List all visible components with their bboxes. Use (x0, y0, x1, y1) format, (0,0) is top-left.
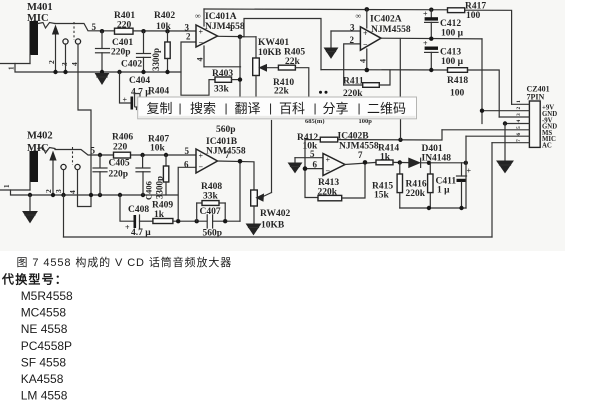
hidden label dots (319, 91, 328, 94)
op-amp IC401B (196, 149, 218, 173)
capacitor C407 560p (200, 207, 241, 239)
node dot R407 (164, 153, 168, 157)
rail dot C412 (429, 8, 433, 12)
svg-text:220: 220 (113, 143, 128, 153)
IC402A labels (356, 12, 411, 36)
ground symbol connector (497, 124, 513, 173)
node dot pin4 rail (365, 68, 370, 73)
feedback vertical x240 lower (239, 161, 241, 221)
svg-text:3300p: 3300p (151, 48, 161, 71)
svg-text:KW401: KW401 (258, 38, 289, 48)
resistor R414 1k (376, 144, 409, 165)
svg-text:M5R4558: M5R4558 (21, 289, 73, 303)
pin 2 digit and wire IC402A (344, 35, 361, 85)
capacitor C412 100u (423, 10, 464, 39)
svg-text:NJM4558: NJM4558 (371, 25, 411, 35)
M401 MIC jack labels (27, 2, 53, 24)
node dot M401 arrow rail (53, 70, 57, 74)
capacitor C411 1u electrolytic (436, 163, 472, 208)
svg-text:分享: 分享 (323, 101, 349, 116)
node dot C406 (140, 153, 144, 157)
svg-text:R402: R402 (154, 11, 175, 21)
svg-text:+: + (363, 29, 368, 38)
svg-text:AC: AC (542, 142, 552, 149)
resistor R401 220 (114, 11, 135, 34)
svg-text:2: 2 (47, 60, 56, 64)
M402 switch dashed link (72, 147, 74, 165)
ground symbol RW402 (247, 224, 261, 235)
resistor R407 10k vertical (148, 135, 169, 196)
R408 C407 parallel network (197, 203, 226, 221)
resistor R408 33k (201, 182, 222, 205)
IC401B labels (206, 137, 246, 157)
svg-text:4: 4 (359, 59, 368, 63)
selection toolbar popup (135, 94, 417, 119)
output feedback vertical (399, 39, 401, 98)
svg-text:|: | (314, 101, 317, 115)
capacitor C402 3300p (121, 31, 161, 72)
op-amp IC402B (323, 154, 345, 176)
MIC net vertical (465, 136, 467, 208)
svg-text:5: 5 (92, 22, 97, 32)
bottom wire dots (427, 206, 464, 210)
svg-text:NE 4558: NE 4558 (21, 322, 68, 336)
svg-text:R408: R408 (201, 182, 222, 192)
svg-text:M402: M402 (27, 131, 53, 142)
pin 1 digit and output wire IC401A (218, 23, 245, 37)
wire output to feedback top (244, 19, 321, 70)
scan background (0, 0, 565, 251)
M401 tip contact arrow (53, 26, 59, 72)
svg-text:C413: C413 (440, 48, 461, 58)
capacitor C408 4.7u electrolytic (125, 205, 153, 238)
M402 tip contact arrow (50, 152, 56, 195)
IC401A pin8 wire to rail (203, 9, 205, 26)
node dot R415 (398, 160, 402, 164)
svg-text:10KB: 10KB (261, 221, 285, 231)
svg-text:220p: 220p (109, 170, 129, 180)
node dot diode out (427, 161, 431, 165)
diode D401 IN4148 (409, 144, 466, 167)
resistor R413 220k (318, 162, 366, 200)
svg-text:5: 5 (91, 146, 96, 156)
svg-text:6: 6 (516, 133, 522, 136)
svg-text:15k: 15k (374, 191, 390, 201)
svg-text:2: 2 (516, 107, 522, 110)
svg-text:3: 3 (54, 189, 63, 193)
M402 pin digits 2 3 4 (44, 189, 77, 194)
IC402A output wire (381, 37, 482, 40)
svg-text:+: + (199, 152, 204, 161)
svg-text:10k: 10k (156, 22, 172, 32)
svg-text:220k: 220k (406, 189, 426, 199)
svg-text:+: + (423, 10, 428, 19)
svg-text:C402: C402 (121, 60, 142, 70)
M402 jack body (30, 151, 39, 182)
svg-text:MC4558: MC4558 (21, 306, 67, 320)
rail dot IC402A (365, 7, 370, 12)
node dot R403 (238, 77, 242, 81)
svg-text:4: 4 (68, 190, 77, 194)
svg-text:7: 7 (516, 139, 522, 142)
rail2 junction dots (51, 193, 145, 197)
pin 6 digit and wire IC402B (305, 159, 323, 169)
op-amp IC401A (196, 25, 218, 47)
svg-text:4: 4 (516, 120, 522, 123)
node dot R401 input (100, 29, 104, 33)
svg-text:+: + (467, 167, 472, 176)
node dot C404 branch (117, 70, 121, 74)
IC402B labels (338, 132, 379, 152)
IC402A pin4 wire (359, 49, 368, 70)
svg-text:R401: R401 (114, 11, 135, 21)
svg-text:−: − (326, 167, 331, 176)
svg-text:7: 7 (358, 150, 363, 160)
wire C408 branch (120, 195, 134, 221)
ground rail channel 1 (0, 55, 181, 73)
vertical from R412 node up (400, 120, 402, 140)
node dot pin6 (303, 166, 308, 171)
resistor R415 15k vertical (372, 163, 403, 209)
op-amp IC402A (360, 27, 381, 50)
resistor R417 100 (448, 2, 512, 105)
CZ401 pin numbers (516, 100, 522, 142)
M401 pin3 wire to ground rail (65, 44, 67, 72)
ground symbol C401 (96, 70, 109, 84)
hidden label fragments under toolbar (305, 118, 372, 125)
svg-text:∞: ∞ (356, 12, 362, 21)
pin 3 digit and wire IC402A (331, 23, 360, 33)
ground symbol IC402A pin3 (325, 31, 338, 58)
node dot network right (223, 219, 227, 223)
svg-text:D401: D401 (422, 144, 443, 154)
svg-text:6: 6 (313, 159, 318, 169)
IC401A pin4 wire (196, 46, 241, 67)
wire jack M402 to R406 node (55, 150, 196, 156)
svg-text:|: | (225, 101, 228, 115)
ground symbol rail2 (23, 193, 37, 223)
svg-text:−: − (199, 163, 204, 172)
svg-text:4: 4 (196, 58, 205, 62)
detector bottom wire (400, 207, 466, 209)
svg-text:SF 4558: SF 4558 (21, 355, 67, 369)
resistor R418 100 (447, 68, 499, 117)
svg-text:100 μ: 100 μ (441, 57, 464, 67)
svg-text:二维码: 二维码 (367, 101, 406, 116)
M401 pin digits 2 3 4 (47, 60, 79, 66)
svg-text:|: | (269, 101, 272, 115)
pin 7 digit and output wire IC402B (345, 150, 376, 165)
top supply rail (204, 8, 448, 11)
resistor R406 220 (112, 133, 133, 159)
resistor R416 220k vertical (406, 163, 434, 208)
output node dot IC401B (238, 159, 243, 164)
svg-text:22k: 22k (274, 87, 290, 97)
svg-text:C404: C404 (129, 76, 150, 86)
svg-text:R413: R413 (318, 178, 339, 188)
negative rail wire y70 (321, 69, 448, 71)
ground symbol IC402B pin5 (289, 158, 302, 173)
wire x482 supply to connector (481, 39, 483, 124)
RW402 wiper arrow (257, 121, 272, 202)
vertical x305 summing node (305, 140, 318, 198)
svg-text:C407: C407 (200, 207, 221, 217)
resistor R411 220k (343, 70, 390, 99)
svg-text:6: 6 (184, 160, 189, 170)
svg-text:1: 1 (229, 23, 234, 33)
capacitor C401 220p (96, 31, 134, 72)
resistor R405 22k (278, 48, 308, 98)
resistor R409 1k (152, 201, 173, 224)
node dot C412 C413 (429, 37, 433, 41)
node dot C402 (141, 29, 145, 33)
svg-text:1: 1 (3, 184, 11, 188)
svg-text:7PIN: 7PIN (527, 93, 545, 102)
svg-text:|: | (358, 101, 361, 115)
wire jack M401 to R401 node (55, 24, 196, 32)
connector CZ401 7PIN (527, 85, 550, 148)
node dot R402 rail (165, 70, 169, 74)
svg-text:100: 100 (466, 11, 481, 21)
M401 plug notch (38, 23, 55, 29)
svg-text:3: 3 (516, 113, 522, 116)
svg-text:560p: 560p (216, 125, 236, 135)
svg-text:C405: C405 (109, 159, 130, 169)
pin 7 digit and output wire IC401B (218, 150, 255, 192)
svg-text:∞: ∞ (195, 12, 201, 21)
svg-text:R406: R406 (112, 133, 133, 143)
node dot C402 rail (141, 70, 145, 74)
svg-text:220p: 220p (111, 48, 131, 58)
potentiometer KW401 10KB (253, 37, 290, 97)
svg-text:+: + (423, 39, 428, 48)
svg-text:2: 2 (44, 189, 53, 193)
long bottom rail (64, 236, 493, 238)
svg-text:R418: R418 (447, 76, 468, 86)
svg-text:1 μ: 1 μ (437, 186, 450, 196)
KW401 wiper arrow (260, 65, 279, 71)
svg-text:−: − (363, 40, 368, 49)
feedback wire y221 (173, 220, 207, 222)
svg-text:RW402: RW402 (260, 209, 291, 219)
M402 MIC jack labels (27, 131, 53, 154)
svg-text:−: − (199, 38, 204, 47)
AC net vertical (491, 143, 493, 237)
pin 5 digit and wire IC402B (295, 149, 323, 159)
resistor R403 33k (212, 69, 240, 95)
svg-text:IN4148: IN4148 (422, 154, 452, 164)
svg-text:KA4558: KA4558 (21, 372, 64, 386)
svg-text:+: + (125, 223, 130, 232)
svg-text:+: + (326, 156, 331, 165)
svg-text:5: 5 (516, 126, 522, 129)
svg-text:图 7 4558 构成的 V CD 话筒音频放大器: 图 7 4558 构成的 V CD 话筒音频放大器 (17, 255, 233, 269)
svg-text:搜索: 搜索 (190, 101, 216, 116)
M401 jack body (30, 21, 39, 55)
rail2 to bottom rail link (63, 195, 65, 237)
R410 label (273, 78, 294, 97)
svg-text:NJM4558: NJM4558 (205, 22, 245, 32)
svg-text:1: 1 (516, 100, 522, 103)
M401 pin4 wire down to M402 (78, 44, 91, 195)
M402 pin3 wire (63, 170, 65, 195)
output node dot IC401A (238, 35, 243, 40)
node dot M401 pin3 rail (63, 70, 67, 74)
svg-text:IC402A: IC402A (370, 15, 402, 25)
svg-text:R416: R416 (406, 180, 427, 190)
wire C404 branch (120, 72, 131, 103)
svg-text:百科: 百科 (279, 101, 305, 116)
toolbar menu text (147, 101, 407, 116)
IC402A pin8 wire (366, 9, 368, 28)
svg-text:33k: 33k (214, 85, 230, 95)
resistor R412 10k (297, 130, 442, 152)
svg-text:C406: C406 (144, 181, 154, 200)
svg-text:100: 100 (450, 89, 465, 99)
M402 pin4 dogleg wire (78, 170, 92, 207)
node dots y221 (176, 219, 199, 223)
node dot R402 (165, 29, 169, 33)
CZ401 pin stubs (442, 104, 529, 142)
M402 switch contact circles (61, 164, 80, 169)
svg-text:IC401A: IC401A (205, 12, 237, 22)
svg-text:IC401B: IC401B (206, 137, 238, 147)
M402 plug notch (38, 148, 55, 154)
M401 switch dashed link (73, 22, 75, 40)
CZ401 pin labels (542, 105, 557, 150)
svg-text:M401: M401 (27, 2, 53, 13)
node dot C413 rail (429, 68, 433, 72)
svg-text:翻译: 翻译 (235, 101, 261, 116)
svg-text:7: 7 (225, 150, 230, 160)
svg-text:3: 3 (60, 62, 69, 66)
svg-text:C412: C412 (440, 19, 461, 29)
wire output IC401A to KW401 (240, 36, 256, 38)
node dot R412 wire (398, 138, 402, 142)
svg-text:复制: 复制 (147, 101, 173, 116)
pin 6 digit and wire IC401B (178, 160, 196, 222)
node dot C411 top (464, 161, 468, 165)
IC401A labels (195, 12, 245, 33)
ground rail channel 2 (0, 182, 178, 195)
node dot R406 input (98, 153, 102, 157)
long feedback vertical x240 upper (239, 37, 241, 98)
svg-text:|: | (179, 101, 182, 115)
svg-text:R404: R404 (148, 87, 169, 97)
svg-text:100 μ: 100 μ (441, 29, 464, 39)
capacitor C413 100u (423, 39, 464, 70)
svg-text:R409: R409 (152, 201, 173, 211)
svg-text:2: 2 (186, 32, 191, 42)
svg-text:PC4558P: PC4558P (21, 339, 72, 353)
svg-text:IC402B: IC402B (338, 132, 370, 142)
svg-text:+: + (123, 96, 128, 105)
svg-text:+: + (199, 28, 204, 37)
node dot output IC402B (363, 160, 368, 165)
potentiometer RW402 10KB (251, 190, 291, 231)
svg-text:C408: C408 (128, 205, 149, 215)
connector junction dots (480, 109, 507, 126)
capacitor C406 3300p (136, 155, 165, 200)
M401 switch contact circles pins 3,4 (63, 39, 81, 44)
svg-text:10KB: 10KB (258, 48, 282, 58)
svg-text:5: 5 (185, 146, 190, 156)
svg-text:1: 1 (8, 66, 16, 70)
wire pin2 IC401A feedback (181, 42, 215, 95)
capacitor C405 220p (93, 155, 130, 195)
resistor R402 10k vertical (154, 11, 175, 72)
svg-text:C401: C401 (112, 38, 133, 48)
capacitor C404 4.7u electrolytic (123, 76, 152, 110)
replacement list (21, 289, 73, 403)
svg-text:代换型号：: 代换型号： (1, 272, 68, 287)
svg-text:R405: R405 (284, 48, 305, 58)
svg-text:LM 4558: LM 4558 (21, 389, 68, 403)
svg-text:10k: 10k (150, 144, 166, 154)
